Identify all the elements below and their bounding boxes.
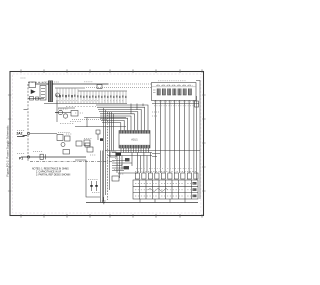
relay block inner left label: [153, 90, 156, 93]
transistor Q2: [63, 114, 67, 118]
labels above relay squares: [156, 85, 193, 87]
svg-text:A1U1: A1U1: [131, 138, 138, 142]
relay K7: [188, 89, 192, 96]
labels beside lower boxes: [58, 133, 100, 193]
connector J1 second speck: [23, 135, 28, 137]
relay K2: [162, 89, 166, 96]
transformer T1: [48, 81, 52, 103]
relay K5: [178, 89, 182, 96]
wire horizontal mid-right: [105, 150, 200, 152]
boundary dashed vertical A1: [27, 84, 29, 161]
label blob under IC left: [116, 153, 122, 156]
notes text block: [32, 168, 71, 177]
labels right of fan: [152, 112, 160, 116]
labels near left connectors: [17, 131, 43, 154]
wire collector line below IC: [112, 152, 152, 154]
terminal box E1: [40, 86, 46, 101]
labels below relay block: [154, 102, 194, 106]
TB1 right column marks: [193, 182, 197, 185]
wire fan corner 5: [100, 114, 134, 131]
arrow input: [31, 90, 35, 94]
wire dotted top continuation: [108, 83, 151, 85]
short links below IC: [112, 161, 138, 174]
wire to Q1: [55, 112, 58, 114]
connector pin circle: [27, 132, 29, 134]
boundary dashed horizontal: [28, 81, 46, 83]
wire fan corner 9: [102, 123, 121, 131]
wire drop x57: [56, 100, 58, 122]
component box Z4: [87, 147, 93, 152]
labels near transistors: [58, 109, 83, 124]
label blob left bundle: [100, 138, 103, 141]
wire rail mid2: [75, 126, 126, 128]
wire rail short a: [58, 107, 75, 109]
capacitor C8: [95, 181, 97, 191]
terminal box at boundary top: [29, 82, 36, 88]
label speckle texture rows: [17, 78, 197, 196]
dashed vertical center-bottom: [107, 112, 109, 200]
wire fan corner 2: [97, 107, 145, 130]
wire rail upper: [78, 90, 127, 92]
boundary tick label: [24, 109, 28, 111]
wire vertical pair center-bottom: [101, 151, 103, 203]
relay K4: [172, 89, 176, 96]
svg-text:Figure FO-2. Power Supply Sche: Figure FO-2. Power Supply Schematic: [5, 125, 9, 177]
labels above TB1 pin boxes: [135, 171, 197, 173]
wires IC to TB1: [137, 153, 150, 174]
relay K3: [167, 89, 171, 96]
labels below IC: [114, 159, 124, 175]
IC U1 bottom pin stubs: [121, 148, 149, 153]
wire right inner vertical: [196, 96, 198, 180]
terminal board TB1: [133, 180, 198, 199]
relay block header line: [152, 86, 197, 88]
component small box K8: [63, 150, 70, 155]
wire fan corner 6: [100, 116, 131, 131]
labels in TB1 cells row3: [135, 195, 196, 197]
crystal Y1: [125, 158, 130, 161]
component box A3: [124, 166, 130, 169]
wire drop x87: [86, 118, 88, 128]
crossing boxes on boundary: [30, 97, 34, 101]
rectifier ladder CR and C bank: [56, 88, 126, 104]
component box Z2: [65, 136, 71, 141]
verticals below IC: [117, 153, 132, 179]
wire right vertical border: [196, 81, 200, 200]
transistor Q1: [58, 110, 62, 114]
wire fan corner 3: [98, 109, 141, 130]
wire z5 drop: [97, 134, 99, 140]
component box Z3: [84, 140, 90, 146]
svg-text:2A2: 2A2: [17, 132, 23, 136]
ground symbol: [102, 197, 106, 204]
frame zone tick marks bottom: [21, 214, 202, 217]
wire lower loop: [75, 160, 100, 197]
wire transformer secondary: [46, 83, 48, 85]
small box mid2: [85, 143, 90, 147]
wire rail short b: [55, 112, 71, 114]
wire dotted rail: [72, 119, 108, 121]
frame zone tick marks top: [21, 69, 202, 72]
wire number labels above pin row: [136, 167, 196, 169]
wire rail upper-left: [55, 87, 85, 89]
wires relay drops: [156, 100, 194, 173]
relay K6: [183, 89, 187, 96]
wire top bus: [35, 83, 108, 85]
capacitor C7: [90, 181, 92, 191]
frame zone tick marks left: [8, 95, 11, 191]
wire collector line 2 below IC: [108, 155, 152, 157]
wire from P1: [21, 156, 86, 158]
labels in ladder row: [58, 100, 124, 102]
relay square stripes: [158, 89, 191, 95]
component box Z5: [96, 130, 100, 134]
zone label top-left: [21, 77, 26, 79]
frame zone tick marks right: [202, 95, 205, 191]
component box Z1: [57, 135, 63, 141]
wire from J1: [30, 133, 57, 135]
wire drop bundle left of IC: [104, 108, 114, 203]
wire crossing drops into fan: [131, 104, 143, 115]
wire fan corner 1: [96, 105, 148, 131]
TB1 pin boxes: [135, 173, 198, 179]
relay block tiny labels: [157, 85, 192, 87]
wire relay bus: [152, 103, 199, 105]
svg-text:2. CAPACITANCE IN UF: 2. CAPACITANCE IN UF: [36, 171, 62, 174]
wire fan corner 8: [101, 120, 124, 130]
connector P1 pin circle: [27, 156, 29, 158]
frame inner dashed margin line: [13, 74, 201, 213]
wire rail mid1: [84, 117, 126, 119]
short stubs right of IC: [152, 154, 160, 157]
labels in TB1 cells row2: [135, 189, 196, 191]
relay block title: [158, 80, 186, 82]
labels under ladder: [66, 106, 96, 108]
wire dotted second run: [86, 87, 151, 89]
relay block A2: [152, 83, 197, 101]
small box above bus: [97, 85, 102, 89]
transistor Q4: [61, 143, 65, 147]
fuse F1: [195, 101, 199, 107]
relay K1: [157, 89, 161, 96]
voltage regulator VR1 box: [71, 111, 78, 117]
component box left of TB1: [112, 176, 119, 181]
stubs TB1 to bottom bus: [140, 199, 185, 203]
dash-dot assembly boundary: [30, 161, 115, 163]
labels in TB1 cells row1: [135, 183, 196, 185]
svg-text:NOTES: 1. RESISTANCE IN OHMS: NOTES: 1. RESISTANCE IN OHMS: [32, 168, 69, 171]
wire bottom bus: [86, 202, 198, 204]
svg-text:3. PARTIAL REF DESIG SHOWN: 3. PARTIAL REF DESIG SHOWN: [36, 174, 71, 177]
small box mid1: [76, 141, 82, 146]
wire fan corner 7: [100, 118, 128, 130]
component box below IC: [110, 152, 116, 157]
waveform squiggle in TB1 middle row: [148, 189, 168, 192]
wire rail lower: [44, 103, 127, 105]
IC U1: [119, 131, 150, 149]
transistor Q5: [56, 93, 60, 97]
labels above top bus: [44, 81, 93, 83]
wire fan corner 4: [99, 112, 138, 131]
diode CR4: [40, 154, 46, 159]
drawing border frame: [10, 72, 204, 216]
